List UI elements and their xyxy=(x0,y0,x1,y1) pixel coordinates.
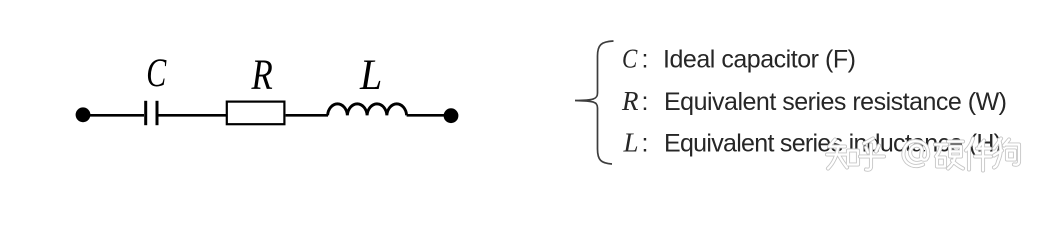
node A (left terminal dot) xyxy=(76,107,91,122)
svg-text:R: R xyxy=(621,86,639,116)
svg-text::: : xyxy=(642,130,649,158)
watermark glyph @ xyxy=(903,141,928,166)
node B (right terminal dot) xyxy=(444,108,459,123)
svg-text:R: R xyxy=(251,50,273,99)
svg-text:C: C xyxy=(622,45,638,74)
wire (inductor to right terminal) xyxy=(407,114,451,117)
wire (left terminal to capacitor) xyxy=(83,114,144,117)
svg-text:Ideal capacitor (F): Ideal capacitor (F) xyxy=(663,46,856,74)
svg-text::: : xyxy=(642,46,649,74)
resistor R (body) xyxy=(227,102,285,125)
watermark glyph 乎 xyxy=(860,139,884,170)
capacitor C (two plates) xyxy=(146,101,157,125)
brace (legend curly brace) xyxy=(575,41,614,164)
legend line 1: C : Ideal capacitor (F) xyxy=(622,45,856,74)
svg-text:C: C xyxy=(146,50,166,95)
svg-text:L: L xyxy=(623,128,639,158)
legend line 3: L : Equivalent series inductance (H) xyxy=(623,128,1003,158)
wire (resistor to inductor) xyxy=(286,114,328,117)
watermark glyph 狗 xyxy=(994,139,1019,168)
svg-text:Equivalent series resistance (: Equivalent series resistance (W) xyxy=(664,88,1007,116)
inductor L (four humps) xyxy=(328,104,407,115)
watermark glyph 硬 xyxy=(935,142,963,169)
watermark glyph 件 xyxy=(966,139,991,171)
svg-text::: : xyxy=(642,88,649,116)
watermark glyph 知 xyxy=(827,140,858,169)
legend line 2: R : Equivalent series resistance (W) xyxy=(621,86,1007,116)
watermark: 知乎 @硬件狗 (drawn as stroked paths, white core with gray edge) xyxy=(827,139,1019,171)
svg-text:L: L xyxy=(359,52,382,100)
wire (capacitor to resistor) xyxy=(159,114,228,117)
